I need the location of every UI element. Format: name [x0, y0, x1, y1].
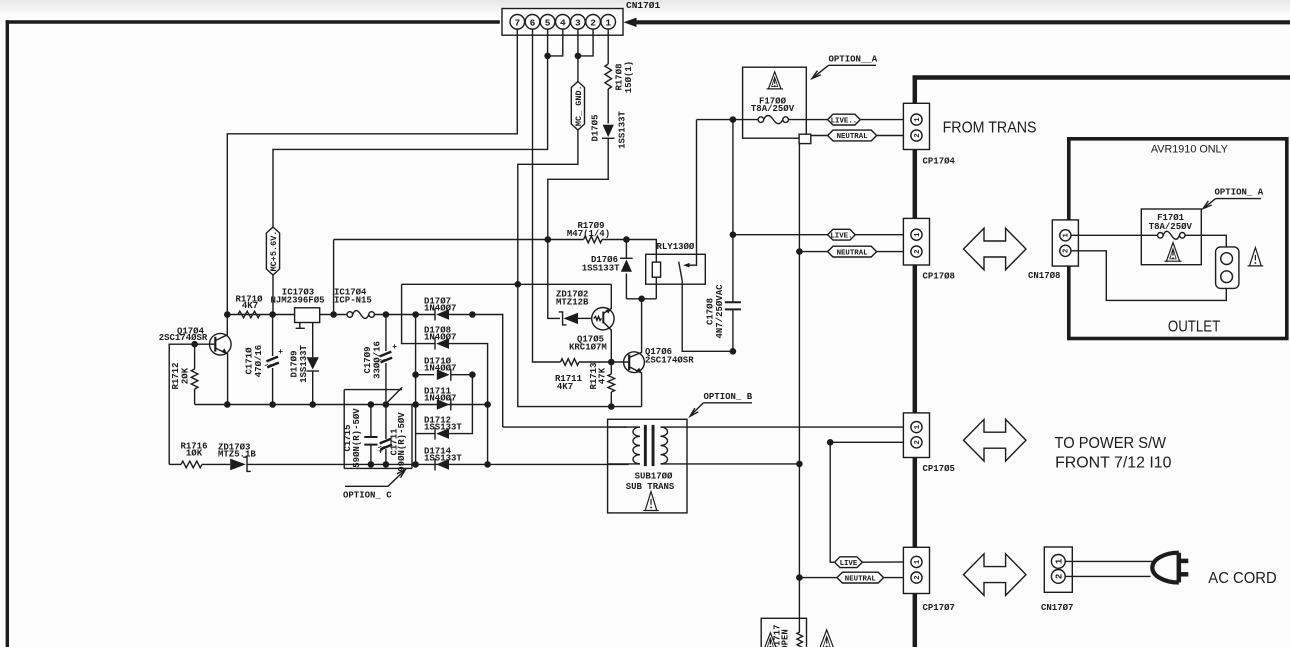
wire NEUTRAL. to CP1708 pin2: [877, 251, 911, 253]
node D1714 right / D1708 join: [484, 461, 491, 468]
svg-text:+: +: [392, 343, 397, 352]
node Q1706 collector branch: [638, 296, 645, 303]
node secondary bottom / neutral drop: [796, 461, 803, 468]
wire LIVE. to CP1708 pin1: [855, 234, 911, 236]
relay contact wire from fuse line: [689, 120, 697, 266]
wire live drop to CP1707: [830, 442, 834, 562]
node C1711 top: [383, 401, 390, 408]
node R1712 gnd: [224, 401, 231, 408]
svg-text:1SS133T: 1SS133T: [582, 264, 620, 274]
svg-text:1: 1: [914, 232, 922, 237]
node D1709 gnd: [309, 401, 316, 408]
double arrow CP1708-CN1708: [964, 228, 1027, 270]
wire pin7 to R1710/Q1704 collector node: [227, 29, 517, 314]
wire pin1 to R1708: [607, 29, 609, 64]
wire live through fuse: [697, 119, 759, 121]
warning symbol right of D1717: [819, 630, 834, 647]
wire LIVE to CP1707 pin1: [862, 561, 911, 563]
svg-text:1ØK: 1ØK: [186, 449, 203, 459]
svg-text:R17Ø8: R17Ø8: [615, 63, 625, 90]
net tag LIVE. (CP1708): [828, 229, 856, 240]
svg-text:R1712: R1712: [171, 362, 181, 389]
svg-text:1: 1: [605, 17, 611, 28]
node pin7/R1710: [224, 311, 231, 318]
zener diode ZD1703: [230, 459, 246, 471]
connector CN1707: [1044, 547, 1072, 592]
resistor D1717 jumper: [797, 632, 803, 647]
node pin4-pin5: [544, 53, 551, 60]
resistor R1709: [584, 236, 602, 243]
net tag LIVE (CP1707): [835, 557, 863, 568]
svg-text:NEUTRAL: NEUTRAL: [837, 133, 869, 141]
transformer secondary winding: [661, 427, 668, 464]
wire C1711/MC_GND node row: [402, 283, 612, 285]
wire to Q1706 collector: [641, 299, 643, 353]
wire matrix to sub-trans top: [503, 426, 627, 428]
option box OPTION_C outline: [344, 389, 402, 391]
svg-text:KRC1Ø7M: KRC1Ø7M: [569, 343, 607, 353]
svg-text:1SS133T: 1SS133T: [299, 345, 309, 383]
net label MC_ GND. pill: [571, 82, 584, 131]
wire CP1705 pin2 branch: [830, 441, 910, 443]
svg-text:1: 1: [1054, 558, 1064, 564]
node D1714 left: [412, 461, 419, 468]
wire +5V rail (R1710 row): [227, 314, 294, 316]
node C1708 top / live line: [730, 116, 737, 123]
warning symbol in D1717 box: [764, 633, 777, 647]
node Q1704 base / R1712: [191, 341, 198, 348]
svg-text:4K7: 4K7: [557, 382, 573, 392]
notch at F1700 bottom right: [799, 134, 811, 143]
node D1710 left: [412, 371, 419, 378]
wire ZD1703 to bottom rail: [247, 463, 344, 465]
transformer SUB1700 box: [608, 419, 687, 513]
svg-text:CP17Ø5: CP17Ø5: [923, 464, 955, 474]
resistor R1712: [194, 344, 196, 369]
fuse IC1704 ICP-N15: [347, 312, 353, 318]
svg-text:2: 2: [914, 440, 922, 444]
svg-text:LIVE..: LIVE..: [831, 117, 858, 125]
wire pin5 to MC+5.6V pill: [273, 29, 548, 227]
node CP1705 pin2 / live drop: [827, 439, 834, 446]
wire pin3 to MC_GND pill: [577, 29, 579, 81]
node tie/gnd rail: [412, 401, 419, 408]
diode D1712: [434, 428, 436, 440]
svg-text:15Ø(1): 15Ø(1): [624, 61, 634, 93]
diode D1714 (on bottom rail): [434, 458, 436, 470]
svg-text:1: 1: [1063, 232, 1071, 237]
svg-text:4N7/25ØVAC: 4N7/25ØVAC: [715, 284, 725, 339]
wire R1709 to relay coil: [602, 240, 656, 263]
fuse F1700: [758, 117, 764, 123]
wire F1701 to outlet: [1201, 235, 1226, 247]
svg-text:2: 2: [1063, 249, 1071, 253]
svg-text:D17Ø9: D17Ø9: [290, 350, 300, 377]
svg-text:SUB17ØØ: SUB17ØØ: [635, 472, 673, 482]
wire pin6 to R1711: [533, 29, 561, 362]
wire R1711 to Q1706 base: [579, 361, 629, 363]
wire R1716 to ZD1703: [202, 463, 230, 465]
svg-text:MC+5.6V.: MC+5.6V.: [269, 231, 279, 272]
net tag NEUTRAL (CP1707): [837, 572, 884, 583]
wire D1707 out to sub-trans branch: [449, 315, 503, 428]
diode D1706: [625, 240, 627, 259]
thick bus line right (vertical): [913, 78, 918, 647]
warning symbol near outlet: [1250, 248, 1262, 266]
thick page-link line from CN1701 to right edge: [629, 20, 1290, 24]
resistor R1710: [238, 311, 260, 318]
svg-text:1: 1: [914, 559, 922, 564]
node D1705/ZD1702 branch: [545, 236, 552, 243]
svg-text:1SS133T: 1SS133T: [424, 454, 462, 464]
transistor Q1704: [210, 333, 232, 355]
transistor Q1706: [624, 352, 645, 373]
svg-text:MC_ GND.: MC_ GND.: [574, 85, 584, 126]
svg-text:47K: 47K: [598, 367, 608, 384]
svg-text:1N4ØØ7: 1N4ØØ7: [424, 304, 456, 314]
svg-text:TO POWER S/W: TO POWER S/W: [1055, 435, 1167, 452]
node NEUTRAL drop CP1708: [796, 248, 803, 255]
relay coil: [652, 262, 660, 277]
svg-text:2: 2: [914, 133, 922, 137]
wire sub-trans secondary top to CP1705 pin1: [661, 426, 911, 428]
diode D1709: [312, 323, 314, 358]
connector CN1701 box: [502, 9, 623, 36]
svg-text:C171Ø: C171Ø: [245, 347, 255, 375]
svg-text:AVR1910 ONLY: AVR1910 ONLY: [1151, 143, 1228, 155]
wire D1710 row: [416, 374, 434, 376]
svg-text:CN17Ø8: CN17Ø8: [1028, 271, 1060, 281]
net tag NEUTRAL (CP1704): [828, 130, 877, 141]
fuse F1701: [1158, 233, 1164, 239]
svg-text:ICP-N15: ICP-N15: [334, 296, 372, 306]
svg-text:CN17Ø7: CN17Ø7: [1041, 603, 1073, 613]
svg-text:1N4ØØ7: 1N4ØØ7: [424, 333, 456, 343]
wire bottom rail through box: [344, 463, 628, 465]
svg-text:1SS133T: 1SS133T: [424, 423, 462, 433]
diode D1710: [450, 369, 452, 381]
diode D1707: [434, 309, 436, 321]
svg-text:1N4ØØ7: 1N4ØØ7: [424, 364, 456, 374]
wire pin4 join pin5: [548, 29, 563, 56]
net tag NEUTRAL (CP1708): [828, 246, 877, 257]
AC plug symbol: [1177, 553, 1182, 583]
svg-text:7: 7: [514, 17, 520, 28]
wire pin2 join pin3: [578, 29, 593, 56]
fuse box F1700 outline: [743, 67, 807, 138]
resistor R1708: [605, 64, 612, 89]
resistor R1713: [610, 362, 612, 374]
node NEUTRAL CP1707: [796, 574, 803, 581]
wire D1712 row: [416, 433, 435, 435]
wire fuse line in box: [1141, 234, 1157, 236]
wire Q1704 base to left branch: [169, 344, 194, 464]
wire NEUTRAL CP1707: [799, 577, 837, 579]
svg-text:1SS133T: 1SS133T: [618, 111, 628, 149]
svg-text:2SC174ØSR: 2SC174ØSR: [159, 333, 208, 343]
page border top: [6, 20, 500, 24]
diode D1705: [602, 137, 615, 139]
svg-text:NJM2396FØ5: NJM2396FØ5: [270, 296, 324, 306]
connector CP1708: [903, 218, 929, 265]
svg-text:D17Ø5: D17Ø5: [591, 114, 601, 141]
net label MC+5.6V. pill: [266, 227, 279, 275]
wire IC1704 to diode matrix: [374, 314, 435, 316]
node MC_GND / C1711 branch: [515, 281, 522, 288]
svg-text:RLY13ØØ: RLY13ØØ: [657, 242, 695, 252]
svg-text:OUTLET: OUTLET: [1168, 319, 1220, 336]
diode D1708: [434, 338, 436, 350]
node C1715 top: [368, 401, 375, 408]
svg-text:+: +: [278, 348, 283, 357]
page border left: [6, 20, 9, 647]
ground rail (main horizontal): [195, 404, 488, 406]
connector CP1707: [903, 547, 929, 593]
connector CP1705: [903, 413, 929, 458]
svg-text:5: 5: [545, 17, 551, 28]
svg-text:6: 6: [530, 17, 536, 28]
resistor R1716: [181, 461, 202, 468]
svg-text:C17Ø9: C17Ø9: [363, 346, 373, 373]
connector CN1708: [1052, 220, 1078, 266]
transformer primary winding: [608, 426, 640, 428]
svg-text:2: 2: [1054, 574, 1064, 579]
svg-text:FRONT 7/12 I10: FRONT 7/12 I10: [1055, 455, 1172, 472]
svg-text:OPEN: OPEN: [781, 629, 791, 647]
capacitor C1711: [385, 405, 387, 440]
resistor R1711: [561, 359, 580, 366]
node D1707/D1710 join: [469, 311, 476, 318]
wire CN1708 pin1 to F1701: [1071, 234, 1141, 236]
node LIVE/C1708: [730, 231, 737, 238]
wire CN1708 pin2 to outlet bottom: [1071, 251, 1226, 301]
node C1715 bottom: [368, 461, 375, 468]
wire R1708 to D1705: [607, 89, 609, 123]
wire neutral vertical drop: [798, 144, 800, 578]
fuse box F1701: [1141, 209, 1201, 265]
vertical tie line x=415.6: [415, 315, 417, 465]
svg-text:OPTION_ A: OPTION_ A: [1215, 188, 1264, 198]
svg-text:M47(1/4): M47(1/4): [567, 229, 610, 239]
wire Q1704-base branch bottom row: [169, 463, 181, 465]
svg-text:T8A/25ØV: T8A/25ØV: [1149, 222, 1193, 232]
relay RLY1300 box: [646, 254, 706, 284]
wire NEUTRAL CP1708: [799, 251, 827, 253]
node C1711 bottom: [383, 461, 390, 468]
warning symbol in F1700: [768, 72, 781, 89]
wire sub-trans secondary bottom: [661, 463, 800, 465]
svg-text:OPTION_ C: OPTION_ C: [343, 491, 392, 501]
node R1713 gnd: [608, 403, 615, 410]
connector CP1704: [903, 103, 929, 149]
net tag LIVE.. (CP1704): [828, 114, 861, 125]
wire C1711 branch to D1708 row: [402, 284, 435, 343]
wire MC+5.6V pill to +5V node: [272, 275, 274, 315]
node D1707 left: [412, 311, 419, 318]
svg-text:CP17Ø7: CP17Ø7: [923, 603, 955, 613]
node gnd rail right: [484, 401, 491, 408]
svg-text:47Ø/16: 47Ø/16: [254, 345, 264, 377]
svg-text:2: 2: [590, 17, 596, 28]
outlet symbol: [1216, 247, 1239, 289]
svg-text:CP17Ø4: CP17Ø4: [923, 157, 956, 167]
node IC1703 out / R1709 branch: [330, 311, 337, 318]
AVR1910 ONLY box: [1069, 139, 1287, 339]
wire LIVE CP1708: [733, 234, 828, 236]
node Q1706 base / R1713: [608, 359, 615, 366]
component box D1717: [761, 618, 806, 647]
node pin2-pin3: [575, 53, 582, 60]
svg-text:CP17Ø8: CP17Ø8: [923, 272, 955, 282]
svg-text:LIVE.: LIVE.: [830, 232, 852, 240]
svg-text:2: 2: [914, 575, 922, 579]
wire NEUTRAL CP1704: [811, 135, 828, 137]
double arrow CP1705: [964, 419, 1027, 461]
svg-text:1N4ØØ7: 1N4ØØ7: [424, 394, 456, 404]
node C1710 gnd: [269, 401, 276, 408]
svg-text:LIVE: LIVE: [840, 560, 858, 568]
IC U IC1703 NJM2396F05: [295, 308, 320, 323]
svg-text:2ØK: 2ØK: [181, 367, 191, 384]
node C1709 top: [383, 311, 390, 318]
svg-text:1: 1: [914, 424, 922, 429]
wire relay common to C1708 node: [682, 281, 733, 352]
thick bus line right (horizontal to page edge): [913, 75, 1290, 80]
capacitor C1710: [272, 315, 274, 357]
svg-text:3: 3: [575, 17, 581, 28]
svg-text:33ØØ/16: 33ØØ/16: [373, 341, 383, 379]
svg-text:FROM TRANS: FROM TRANS: [943, 120, 1037, 137]
svg-text:NEUTRAL: NEUTRAL: [845, 575, 877, 583]
svg-text:AC CORD: AC CORD: [1208, 570, 1277, 587]
svg-text:OPTION__A: OPTION__A: [829, 55, 878, 65]
svg-text:T8A/25ØV: T8A/25ØV: [751, 104, 795, 114]
svg-text:CN17Ø1: CN17Ø1: [626, 0, 661, 11]
diode D1711 (on ground rail): [450, 399, 452, 411]
wire CN1707 pin2 to plug: [1065, 575, 1150, 577]
svg-text:MTZ5.1B: MTZ5.1B: [218, 450, 256, 460]
wire IC1703 out: [320, 314, 348, 316]
wire R1709 row: [334, 239, 584, 241]
wire MC_GND pill down-left-down to ground rail: [518, 130, 642, 407]
zener diode ZD1702: [548, 240, 560, 319]
wire NEUTRAL to CP1704 pin2: [877, 135, 911, 137]
warning symbol in F1701: [1166, 243, 1179, 262]
wire D1708 out: [449, 344, 488, 465]
wire LIVE to CP1704 pin1: [860, 119, 911, 121]
svg-text:59ØN(R)-5ØV: 59ØN(R)-5ØV: [352, 408, 362, 468]
svg-text:OPTION_ B: OPTION_ B: [704, 392, 753, 402]
svg-text:SUB TRANS: SUB TRANS: [626, 482, 675, 492]
svg-text:1: 1: [914, 117, 922, 122]
wire R1709 branch up: [333, 240, 335, 315]
capacitor C1709: [385, 315, 387, 352]
node C1708 bottom / relay common: [730, 348, 737, 355]
wire NEUTRAL to CP1707 pin2: [884, 577, 911, 579]
warning symbol in SUB1700: [645, 492, 657, 511]
svg-text:99ØN(R)-5ØV: 99ØN(R)-5ØV: [397, 412, 407, 472]
wire D1706 bottom to coil bottom: [626, 298, 656, 300]
svg-text:4K7: 4K7: [242, 301, 258, 311]
svg-text:2SC174ØSR: 2SC174ØSR: [645, 356, 694, 366]
svg-text:4: 4: [560, 17, 566, 28]
node D1710 right: [469, 371, 476, 378]
capacitor C1708: [732, 120, 734, 303]
connector CN1701 pins 7-1: [510, 14, 616, 29]
svg-text:C17Ø8: C17Ø8: [706, 298, 716, 325]
transformer core: [644, 425, 647, 466]
double arrow CP1707-CN1707: [964, 554, 1027, 596]
svg-text:MTZ12B: MTZ12B: [556, 298, 589, 308]
wire D1705 to R1709 node: [548, 138, 608, 239]
capacitor C1715: [370, 405, 372, 438]
svg-text:2: 2: [914, 249, 922, 253]
relay contact: [683, 263, 689, 268]
wire CN1707 pin1 to plug: [1065, 560, 1152, 562]
node R1710/C1710/MC+5.6V: [269, 311, 276, 318]
svg-text:NEUTRAL: NEUTRAL: [837, 249, 869, 257]
node D1706 top: [623, 236, 630, 243]
transistor Q1705: [592, 308, 614, 330]
